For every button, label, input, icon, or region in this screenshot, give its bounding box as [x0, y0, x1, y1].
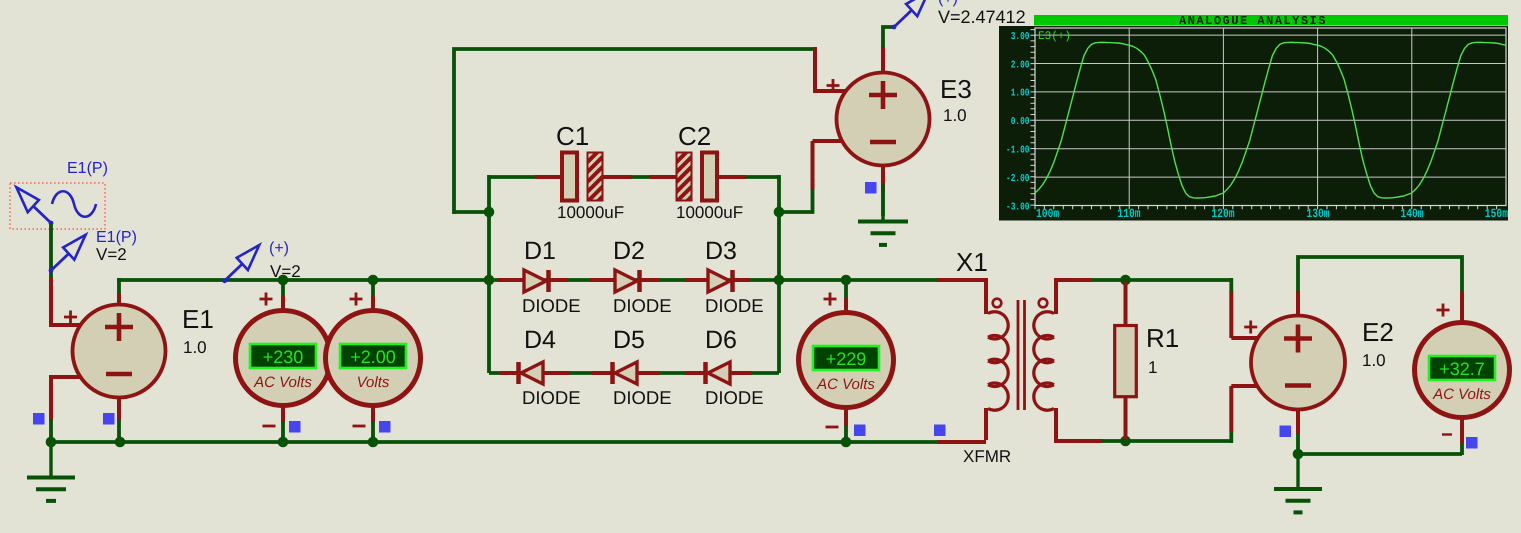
wire meter2 top: [371, 280, 375, 297]
wire meter3 bottom: [844, 425, 848, 442]
svg-text:E2: E2: [1362, 317, 1394, 347]
ground E2: [1274, 454, 1322, 512]
value D1 DIODE: [522, 295, 581, 316]
minus mark meter4: [1442, 433, 1452, 435]
wire meter2 bottom: [371, 421, 375, 442]
pin meter2 top: [371, 296, 375, 312]
value D6 DIODE: [705, 387, 764, 408]
resistor R1: [1115, 326, 1137, 397]
transformer X1 primary winding: [988, 312, 1008, 410]
value C2 10000uF: [676, 203, 743, 222]
handle square meter4: [1466, 437, 1478, 449]
node E1 bottom: [115, 437, 126, 448]
wire E1 minus to ground rail: [49, 420, 53, 442]
generator arrow symbol: [16, 187, 53, 225]
pin E1 bottom: [117, 397, 121, 421]
svg-text:+230: +230: [263, 347, 304, 367]
label R1: [1146, 323, 1179, 353]
capacitor C1: [562, 153, 603, 201]
wire meter3 top: [844, 280, 848, 299]
svg-text:ANALOGUE ANALYSIS: ANALOGUE ANALYSIS: [1179, 14, 1327, 28]
wire E2 bottom to node: [1296, 433, 1300, 454]
svg-text:10000uF: 10000uF: [557, 203, 624, 222]
pin C2 left: [650, 175, 678, 179]
svg-text:E1(P): E1(P): [67, 160, 108, 177]
voltmeter Volts +2.00: [326, 311, 421, 406]
svg-text:-1.00: -1.00: [1006, 145, 1030, 157]
pin stub on diode row 1: [685, 278, 708, 282]
svg-text:1.0: 1.0: [943, 106, 967, 125]
wire E2 top to meter4: [1298, 257, 1462, 293]
voltmeter AC Volts +229: [799, 313, 894, 408]
svg-text:100m: 100m: [1036, 207, 1060, 221]
svg-text:DIODE: DIODE: [705, 387, 764, 408]
analysis window background: [999, 26, 1508, 221]
pin E1 top: [117, 293, 121, 306]
svg-text:3.00: 3.00: [1011, 31, 1030, 43]
handle square transformer: [934, 425, 946, 437]
pin stub on diode row 2: [638, 371, 660, 375]
svg-text:(+): (+): [938, 0, 958, 7]
svg-text:D6: D6: [705, 326, 737, 354]
svg-text:120m: 120m: [1211, 207, 1235, 221]
minus mark meter3: [826, 426, 839, 429]
voltage probe E1(P): [49, 235, 86, 273]
wire E1 bottom to rail: [117, 420, 121, 442]
capacitor C2: [677, 153, 718, 201]
pin E3 bottom: [881, 165, 885, 192]
plus mark meter3: [824, 293, 837, 306]
pin E2 plus vertical: [1229, 291, 1233, 338]
wire secondary bottom: [1102, 439, 1231, 443]
voltmeter AC Volts +230: [236, 311, 331, 406]
svg-text:DIODE: DIODE: [613, 387, 672, 408]
pin E2 bottom: [1296, 409, 1300, 434]
pin E2 top: [1296, 291, 1300, 316]
pin C1 left: [535, 175, 563, 179]
svg-text:AC Volts: AC Volts: [816, 376, 875, 393]
svg-text:1.0: 1.0: [183, 338, 207, 357]
value E3 1.0: [943, 106, 967, 125]
svg-text:110m: 110m: [1117, 207, 1141, 221]
svg-text:+32.7: +32.7: [1439, 359, 1485, 379]
wire E3 top to probe: [883, 27, 894, 47]
label V=2 probe2: [270, 262, 301, 281]
svg-text:X1: X1: [956, 247, 988, 277]
node R1 bottom: [1120, 436, 1131, 447]
svg-text:DIODE: DIODE: [705, 295, 764, 316]
handle square meter2: [379, 421, 391, 433]
svg-text:DIODE: DIODE: [613, 295, 672, 316]
diode D4: [519, 362, 544, 384]
label D1: [524, 237, 556, 265]
handle square near E1 bottom: [103, 413, 115, 425]
wire meter4 bottom corner: [1460, 443, 1464, 455]
transformer X1 polarity dot primary: [993, 299, 1002, 308]
node meter1 top: [278, 275, 289, 286]
svg-text:C2: C2: [678, 121, 711, 151]
svg-text:10000uF: 10000uF: [676, 203, 743, 222]
pin E2 minus vertical: [1229, 386, 1233, 432]
pin meter4 bottom: [1460, 417, 1464, 444]
transformer X1 polarity dot secondary: [1039, 299, 1048, 308]
graph y-axis labels: [1006, 31, 1030, 213]
plus mark meter4: [1437, 304, 1450, 317]
handle square E3: [865, 182, 877, 194]
svg-text:(+): (+): [269, 240, 289, 257]
generator E1(P) tagbox: [10, 183, 105, 229]
plus polarity mark E1 input: [64, 311, 77, 324]
diode D1: [524, 270, 549, 292]
voltage probe (+) E3: [892, 0, 929, 29]
node R1 top: [1120, 275, 1131, 286]
pin meter3 top: [844, 298, 848, 314]
pin stub on diode row 2: [592, 371, 614, 375]
pin into E1 plus: [49, 323, 81, 327]
pin stub on diode row 1: [638, 278, 661, 282]
value R1 1: [1148, 358, 1157, 377]
pin stub on diode row 1: [731, 278, 751, 282]
wire E1 minus down: [49, 377, 53, 421]
ground E3: [858, 184, 908, 245]
pin C2 right: [716, 175, 746, 179]
svg-text:E1(P): E1(P): [96, 229, 137, 246]
wire cap row right: [745, 175, 779, 179]
wire E3 bottom to ground: [881, 191, 885, 216]
handle square meter3: [854, 425, 866, 437]
wire cap junction up right: [777, 175, 781, 212]
pin stub on diode row 1: [937, 278, 986, 282]
diode D3: [708, 270, 733, 292]
wire top loop left vertical: [454, 49, 816, 214]
wire bridge right vertical: [777, 212, 781, 373]
label (+) probe: [269, 240, 289, 257]
wire top rail: [117, 278, 938, 282]
value D5 DIODE: [613, 387, 672, 408]
label D2: [613, 237, 645, 265]
pin R1 top: [1124, 282, 1128, 326]
label V=2 probe: [96, 245, 127, 264]
voltage probe (+): [222, 245, 259, 283]
label E3: [940, 74, 972, 104]
wire cap junction up left: [487, 175, 491, 212]
wire between caps: [631, 175, 651, 179]
svg-text:130m: 130m: [1306, 207, 1330, 221]
svg-text:+2.00: +2.00: [350, 347, 396, 367]
node bridge left top: [484, 275, 495, 286]
node cap left: [484, 207, 495, 218]
svg-text:DIODE: DIODE: [522, 387, 581, 408]
svg-text:D4: D4: [524, 326, 556, 354]
label D5: [613, 326, 645, 354]
handle square E2: [1280, 426, 1292, 438]
handle square meter1: [289, 421, 301, 433]
value E1 1.0: [183, 338, 207, 357]
svg-text:-2.00: -2.00: [1006, 173, 1030, 185]
transformer X1 secondary winding: [1034, 312, 1054, 410]
pin stub on diode row 2: [685, 371, 706, 375]
label C1: [556, 121, 589, 151]
svg-text:E3: E3: [940, 74, 972, 104]
pin E2 plus: [1231, 336, 1259, 340]
voltage source E3: [837, 73, 930, 166]
node cap right: [774, 207, 785, 218]
label E1(P) probe: [96, 229, 137, 246]
voltmeter AC Volts +32.7: [1415, 323, 1510, 418]
svg-text:V=2.47412: V=2.47412: [938, 7, 1026, 27]
svg-text:Volts: Volts: [357, 374, 390, 391]
wire E1 top to rail: [117, 278, 121, 294]
value D4 DIODE: [522, 387, 581, 408]
plus mark meter2: [350, 293, 363, 306]
wire E2 node to meter4: [1298, 452, 1462, 456]
pin transformer secondary top: [1056, 280, 1092, 314]
node meter3 bottom: [841, 437, 852, 448]
graph x-axis labels: [1036, 207, 1508, 221]
plus mark E3 input: [827, 79, 840, 92]
pin stub on diode row 1: [590, 278, 615, 282]
label V=2.47412: [938, 7, 1026, 27]
label D4: [524, 326, 556, 354]
pin E3 plus: [815, 79, 847, 91]
svg-text:1: 1: [1148, 358, 1157, 377]
ground left: [27, 442, 75, 501]
pin meter4 top: [1460, 292, 1464, 325]
wire top loop: [454, 210, 489, 214]
wire secondary top: [1091, 278, 1231, 282]
value D3 DIODE: [705, 295, 764, 316]
wire generator to E1 (green upper): [49, 223, 53, 277]
label E1: [182, 304, 214, 334]
svg-text:AC Volts: AC Volts: [1432, 386, 1491, 403]
plus mark meter1: [260, 293, 273, 306]
wire E3 minus down: [811, 141, 815, 190]
svg-text:1.0: 1.0: [1362, 351, 1386, 370]
svg-text:D5: D5: [613, 326, 645, 354]
wire E3 minus to cap node: [779, 189, 813, 212]
pin stub on diode row 2: [500, 371, 519, 375]
minus mark meter2: [353, 425, 366, 428]
pin E3 top: [881, 46, 885, 73]
value XFMR: [963, 447, 1011, 466]
graph legend E3(+): [1038, 30, 1071, 43]
svg-text:V=2: V=2: [96, 245, 127, 264]
label X1: [956, 247, 988, 277]
wire loop right vertical: [813, 47, 817, 80]
wire meter1 top: [281, 280, 285, 297]
node bridge right top: [774, 275, 785, 286]
label D6: [705, 326, 737, 354]
value C1 10000uF: [557, 203, 624, 222]
plus mark E2 input: [1244, 321, 1257, 334]
pin stub on diode row 2: [543, 371, 570, 375]
wire E3 minus pin: [813, 139, 848, 143]
pin meter1 bottom: [281, 405, 285, 422]
pin meter2 bottom: [371, 405, 375, 422]
svg-text:+229: +229: [826, 349, 867, 369]
pin R1 bottom: [1124, 396, 1128, 439]
svg-text:E1: E1: [182, 304, 214, 334]
wire secondary bottom corner: [1229, 431, 1233, 443]
diode D2: [615, 270, 640, 292]
pin C1 right: [601, 175, 632, 179]
node meter2 bottom: [368, 437, 379, 448]
svg-text:150m: 150m: [1485, 207, 1509, 221]
node E2 ground: [1293, 449, 1304, 460]
value D2 DIODE: [613, 295, 672, 316]
pin stub bottom rail to transformer: [937, 440, 986, 444]
analysis window title bar: [1034, 14, 1508, 28]
diode D6: [706, 362, 731, 384]
label E1(P) generator: [67, 160, 108, 177]
value E2 1.0: [1362, 351, 1386, 370]
generator sine symbol: [52, 191, 96, 217]
pin transformer secondary bottom: [1056, 408, 1103, 441]
svg-text:R1: R1: [1146, 323, 1179, 353]
wire meter1 bottom: [281, 421, 285, 442]
pin transformer primary bottom: [984, 408, 988, 440]
svg-text:2.00: 2.00: [1011, 59, 1030, 71]
pin meter1 top: [281, 296, 285, 312]
node ground rail left: [46, 437, 57, 448]
svg-text:AC Volts: AC Volts: [253, 374, 312, 391]
pin transformer primary top: [984, 278, 988, 314]
graph plot grid: [1031, 28, 1507, 209]
diode D5: [613, 362, 638, 384]
svg-text:D2: D2: [613, 237, 645, 265]
transformer X1 core: [1018, 300, 1025, 410]
pin meter3 bottom: [844, 407, 848, 426]
svg-text:-3.00: -3.00: [1006, 201, 1030, 213]
svg-text:DIODE: DIODE: [522, 295, 581, 316]
svg-text:1.00: 1.00: [1011, 88, 1030, 100]
svg-text:0.00: 0.00: [1011, 116, 1030, 128]
wire bridge left vertical: [487, 212, 491, 373]
pin E1 minus: [49, 375, 81, 379]
svg-text:C1: C1: [556, 121, 589, 151]
wire cap row left: [489, 175, 536, 179]
svg-text:E3(+): E3(+): [1038, 30, 1071, 43]
wire generator to E1 (pin): [49, 277, 53, 327]
node meter3 top: [841, 275, 852, 286]
node meter2 top: [368, 275, 379, 286]
voltage source E1: [73, 305, 166, 398]
pin E2 minus: [1231, 384, 1259, 388]
voltage source E2: [1251, 316, 1345, 410]
label C2: [678, 121, 711, 151]
node meter1 bottom: [278, 437, 289, 448]
wire secondary top corner: [1229, 278, 1233, 292]
pin stub on diode row 2: [730, 371, 752, 375]
pin stub on diode row 1: [547, 278, 569, 282]
handle square near E1 left: [33, 413, 45, 425]
svg-text:XFMR: XFMR: [963, 447, 1011, 466]
waveform trace E3(+): [1035, 42, 1506, 198]
label D3: [705, 237, 737, 265]
pin stub on diode row 1: [498, 278, 524, 282]
wire diode row2: [489, 371, 779, 375]
svg-text:D3: D3: [705, 237, 737, 265]
svg-text:140m: 140m: [1400, 207, 1424, 221]
svg-text:V=2: V=2: [270, 262, 301, 281]
label E2: [1362, 317, 1394, 347]
minus mark meter1: [263, 425, 276, 428]
svg-text:D1: D1: [524, 237, 556, 265]
label (+) probe E3: [938, 0, 958, 7]
wire bottom rail: [49, 440, 938, 444]
